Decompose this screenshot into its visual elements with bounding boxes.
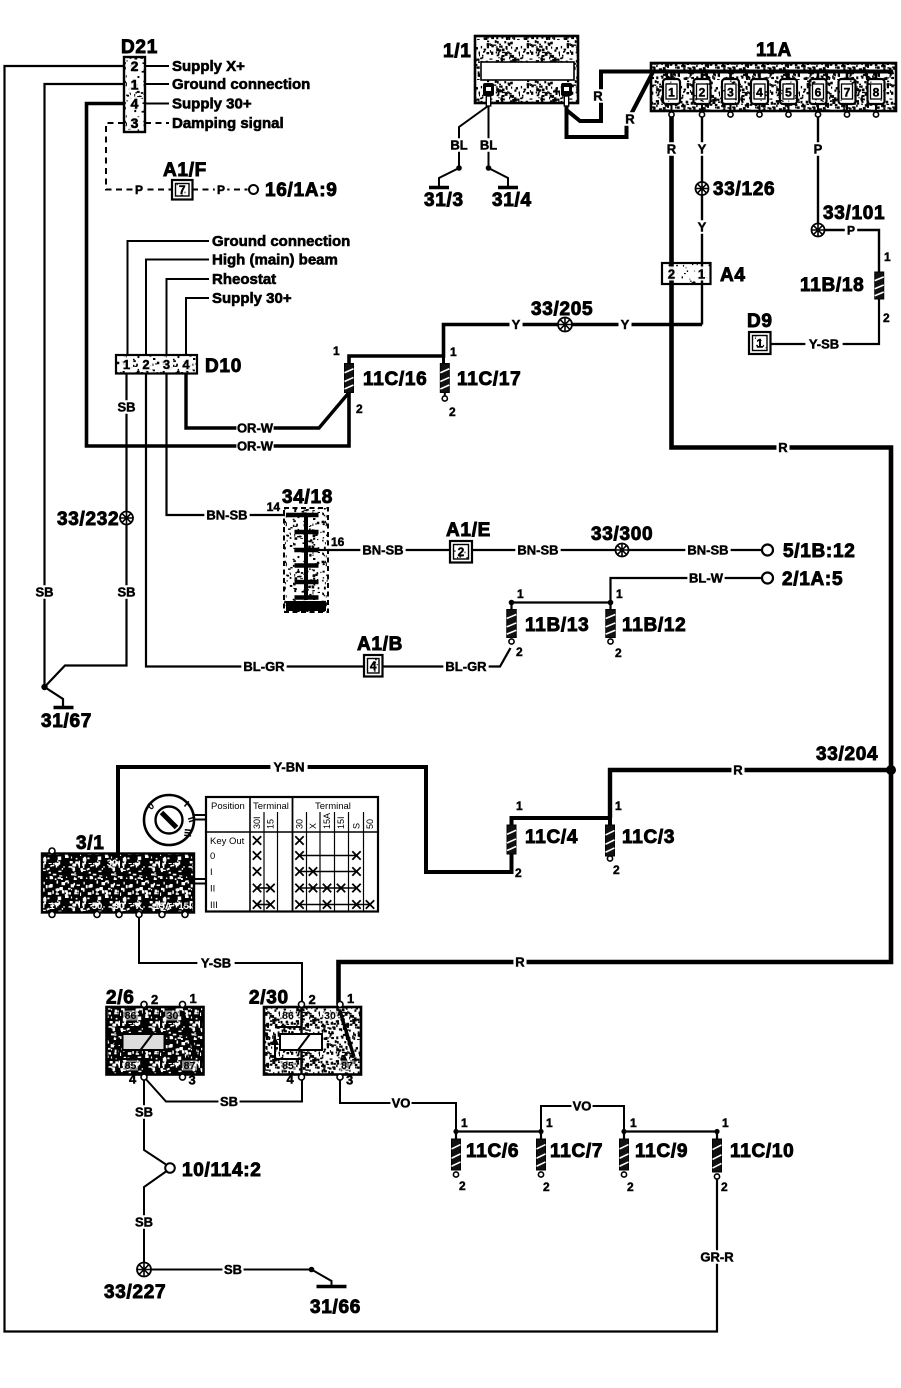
- fuse 2: [701, 72, 704, 81]
- splice 33/300: [616, 544, 629, 557]
- svg-text:BN-SB: BN-SB: [517, 543, 558, 558]
- svg-text:2: 2: [151, 992, 158, 1007]
- wire: VO jog 11C/7 to 11C/9: [541, 1106, 624, 1132]
- wire: fuse2 Y down through 33/126 to A4 pin1: [701, 104, 703, 263]
- wire: 11C row pin1 bus: [456, 1132, 541, 1140]
- wire: D21 pin3 damping signal dashed to A1/F and 16/1A:9: [106, 123, 172, 190]
- svg-text:2: 2: [699, 86, 706, 100]
- svg-text:15I: 15I: [336, 816, 346, 829]
- bulb 11C/17: [444, 393, 446, 396]
- fuse bus bar: [654, 70, 893, 74]
- svg-text:X: X: [136, 901, 143, 912]
- svg-text:2: 2: [515, 866, 522, 880]
- svg-text:I: I: [210, 867, 213, 878]
- svg-text:11C/6: 11C/6: [466, 1141, 519, 1162]
- svg-text:86: 86: [282, 1010, 294, 1022]
- splice 33/204: [886, 765, 896, 775]
- splice 33/227: [137, 1263, 151, 1277]
- svg-text:Supply 30+: Supply 30+: [212, 290, 292, 307]
- fuse 4: [758, 72, 761, 81]
- svg-text:33/126: 33/126: [713, 179, 775, 200]
- svg-text:1: 1: [123, 357, 130, 372]
- svg-text:2: 2: [627, 1180, 634, 1194]
- svg-text:3: 3: [131, 115, 139, 131]
- svg-text:BN-SB: BN-SB: [687, 543, 728, 558]
- svg-text:2: 2: [142, 357, 149, 372]
- svg-text:P: P: [814, 142, 823, 157]
- svg-text:50: 50: [365, 819, 375, 829]
- svg-text:Y-BN: Y-BN: [273, 760, 304, 775]
- svg-text:30: 30: [107, 858, 118, 869]
- svg-text:R: R: [593, 89, 603, 104]
- svg-text:OR-W: OR-W: [237, 421, 274, 436]
- svg-text:8: 8: [873, 86, 880, 100]
- svg-text:16: 16: [331, 535, 345, 549]
- svg-text:5/1B:12: 5/1B:12: [783, 541, 856, 562]
- svg-text:15A: 15A: [322, 813, 332, 829]
- svg-text:1: 1: [333, 344, 340, 358]
- svg-text:2: 2: [458, 545, 465, 559]
- svg-text:D9: D9: [747, 311, 773, 332]
- svg-text:2: 2: [721, 1180, 728, 1194]
- svg-text:1: 1: [516, 799, 523, 813]
- svg-text:1: 1: [722, 1116, 729, 1130]
- svg-text:1: 1: [450, 345, 457, 359]
- svg-text:Terminal: Terminal: [315, 801, 351, 812]
- splice 33/205: [558, 318, 572, 332]
- svg-text:2: 2: [883, 311, 890, 325]
- wire: D10 pin2 down BL-GR: [146, 373, 364, 667]
- svg-text:4: 4: [182, 357, 190, 372]
- svg-text:1: 1: [131, 77, 139, 93]
- wire: battery + to fuse bus R (upper): [567, 72, 657, 122]
- bulb 11B/18: [875, 272, 884, 299]
- svg-text:Terminal: Terminal: [253, 801, 289, 812]
- svg-text:34/18: 34/18: [282, 487, 333, 508]
- connector D9 pin1: [749, 332, 771, 354]
- svg-text:BL-W: BL-W: [689, 571, 724, 586]
- OR-W labels: [236, 421, 273, 435]
- svg-text:OR-W: OR-W: [237, 439, 274, 454]
- fuse 6: [817, 72, 820, 81]
- svg-text:7: 7: [844, 86, 851, 100]
- svg-text:1: 1: [49, 901, 55, 912]
- svg-text:R: R: [667, 142, 677, 157]
- svg-text:SB: SB: [135, 1215, 153, 1230]
- ground 31/66: [317, 1285, 347, 1288]
- svg-text:15I: 15I: [178, 901, 191, 912]
- wire: 11C/4 pin1 to 11C/3 pin1 to R 33/204: [512, 818, 611, 825]
- wire color labels top: [591, 89, 604, 103]
- svg-text:3: 3: [346, 1073, 353, 1088]
- wire: D21 label stubs: [145, 66, 169, 104]
- svg-text:BN-SB: BN-SB: [206, 508, 247, 523]
- svg-text:30: 30: [114, 901, 125, 912]
- svg-text:11C/3: 11C/3: [622, 827, 675, 848]
- wire: battery + to fuse box R (lower loop): [567, 73, 653, 137]
- svg-text:D10: D10: [205, 356, 242, 377]
- svg-text:1: 1: [668, 86, 675, 100]
- svg-text:3/1: 3/1: [76, 833, 105, 854]
- svg-text:Y: Y: [512, 317, 521, 332]
- svg-text:3: 3: [189, 1073, 196, 1088]
- wire: 11B/18 pin2 down Y-SB to D9: [770, 299, 879, 344]
- battery terminals: [483, 83, 494, 96]
- svg-text:11C/16: 11C/16: [363, 369, 427, 390]
- svg-text:31/67: 31/67: [41, 711, 92, 732]
- svg-text:Y: Y: [698, 220, 707, 235]
- Y-BN label: [270, 760, 307, 774]
- wire: 33/101 to 11B/18 pin1: [824, 230, 879, 272]
- svg-text:2: 2: [516, 645, 523, 659]
- svg-text:11C/17: 11C/17: [457, 369, 521, 390]
- wire: border loop D21 pin2 Supply X+ / GR-R to 11C/10: [5, 66, 718, 1332]
- svg-text:R: R: [515, 955, 525, 970]
- svg-text:2: 2: [459, 1179, 466, 1193]
- connector A1/E pin2: [450, 541, 472, 563]
- svg-text:30: 30: [324, 1010, 336, 1022]
- connector 16/1A:9: [249, 185, 258, 194]
- wire: Y horizontal through 33/205 to 11C/16 11C/17: [349, 325, 702, 365]
- svg-text:0: 0: [210, 851, 215, 862]
- ground 31/4: [498, 186, 518, 189]
- svg-text:33/205: 33/205: [531, 299, 593, 320]
- svg-text:31/66: 31/66: [310, 1297, 361, 1318]
- svg-text:11C/9: 11C/9: [635, 1141, 688, 1162]
- svg-text:3: 3: [727, 86, 734, 100]
- svg-text:2: 2: [309, 992, 316, 1007]
- connector A1/B pin4: [364, 655, 383, 677]
- svg-text:11B/18: 11B/18: [800, 275, 864, 296]
- svg-text:BL: BL: [480, 138, 497, 153]
- svg-text:SB: SB: [117, 585, 135, 600]
- wire re-stroke through A4: [669, 263, 674, 284]
- svg-text:III: III: [210, 900, 218, 911]
- svg-text:A1/F: A1/F: [163, 160, 207, 181]
- connector 10/114:2: [165, 1163, 175, 1173]
- svg-text:11A: 11A: [756, 40, 792, 61]
- svg-text:1: 1: [616, 587, 623, 601]
- svg-text:2: 2: [543, 1180, 550, 1194]
- splice 33/126: [696, 182, 709, 195]
- wire: 11B/13 pin1 to 11B/12 pin1: [512, 603, 611, 610]
- connector 2/1A:5: [762, 573, 773, 584]
- wire: D21 pin1 ground connection SB: [45, 84, 125, 686]
- svg-text:85: 85: [282, 1060, 294, 1072]
- svg-text:4: 4: [756, 86, 763, 100]
- svg-text:BL: BL: [450, 138, 467, 153]
- svg-text:VO: VO: [392, 1096, 411, 1111]
- ground 31/3: [429, 186, 449, 189]
- svg-text:R: R: [778, 440, 788, 455]
- ignition key symbol: [144, 795, 194, 845]
- svg-text:BL-GR: BL-GR: [445, 659, 487, 674]
- svg-text:Key Out: Key Out: [210, 836, 245, 847]
- svg-text:31/3: 31/3: [424, 190, 464, 211]
- svg-text:P: P: [135, 183, 143, 197]
- svg-text:50: 50: [92, 901, 103, 912]
- svg-text:3: 3: [163, 357, 170, 372]
- svg-text:1: 1: [546, 1116, 553, 1130]
- svg-text:33/227: 33/227: [104, 1282, 166, 1303]
- wire: VO from 2/30 pin3 to 11C/6: [340, 1077, 456, 1132]
- svg-text:1: 1: [615, 799, 622, 813]
- svg-text:1: 1: [756, 336, 763, 350]
- splice 33/101: [812, 224, 825, 237]
- svg-text:Supply X+: Supply X+: [172, 58, 245, 75]
- wire: SB link 2/6 pin4 to 2/30 pin4: [144, 1077, 302, 1102]
- svg-text:4: 4: [370, 659, 377, 673]
- svg-text:SB: SB: [220, 1094, 238, 1109]
- connector A4: [662, 263, 711, 284]
- svg-text:30: 30: [167, 1010, 179, 1022]
- svg-text:1: 1: [190, 991, 197, 1006]
- svg-text:2/1A:5: 2/1A:5: [782, 569, 843, 590]
- svg-text:30: 30: [295, 819, 305, 829]
- fuse 1: [670, 72, 673, 81]
- connector D21: [124, 57, 145, 132]
- ignition switch 3/1: [42, 854, 194, 913]
- svg-text:2: 2: [613, 863, 620, 877]
- svg-text:Ground connection: Ground connection: [212, 233, 350, 250]
- svg-text:P: P: [217, 183, 225, 197]
- svg-text:11B/13: 11B/13: [525, 615, 589, 636]
- relay 2/30: [264, 1007, 361, 1075]
- svg-text:Y: Y: [698, 142, 707, 157]
- wire: D21 pin4 Supply 30+ thick OR-W: [87, 104, 350, 447]
- wire: BN-SB from 34/18 pin16 to A1/E to 5/1B:12: [318, 549, 450, 551]
- svg-text:33/232: 33/232: [57, 509, 119, 530]
- svg-text:33/204: 33/204: [816, 744, 878, 765]
- svg-text:SB: SB: [117, 400, 135, 415]
- svg-text:SB: SB: [135, 1105, 153, 1120]
- svg-text:1: 1: [630, 1116, 637, 1130]
- svg-text:A1/B: A1/B: [357, 634, 403, 655]
- svg-text:Ground connection: Ground connection: [172, 76, 310, 93]
- wire: SB 2/6 pin4 down: [144, 1077, 166, 1165]
- svg-text:2: 2: [615, 646, 622, 660]
- svg-text:BN-SB: BN-SB: [362, 543, 403, 558]
- wire BL to 31/4: [489, 106, 509, 187]
- wire: D10 pin4 down OR-W to 11C/16 pin2: [186, 373, 349, 428]
- svg-text:1: 1: [347, 991, 354, 1006]
- svg-text:86: 86: [125, 1010, 137, 1022]
- svg-text:SB: SB: [35, 585, 53, 600]
- svg-text:D21: D21: [121, 37, 158, 58]
- svg-text:Y-SB: Y-SB: [809, 337, 839, 352]
- svg-text:II: II: [210, 884, 215, 895]
- wire: leader lines to D10 labels: [128, 241, 210, 355]
- svg-text:SB: SB: [224, 1262, 242, 1277]
- svg-text:A1/E: A1/E: [446, 520, 491, 541]
- svg-text:87: 87: [341, 1060, 353, 1072]
- fuse box 11A: [651, 63, 896, 111]
- svg-text:2/6: 2/6: [106, 988, 135, 1009]
- svg-text:III: III: [181, 828, 193, 837]
- svg-text:S: S: [352, 823, 362, 829]
- svg-text:Position: Position: [211, 801, 245, 812]
- resistor module 34/18: [284, 508, 328, 612]
- svg-text:1: 1: [517, 587, 524, 601]
- svg-text:2: 2: [668, 267, 675, 282]
- svg-text:Supply 30+: Supply 30+: [172, 96, 252, 113]
- svg-text:5: 5: [785, 86, 792, 100]
- svg-text:X: X: [308, 823, 318, 829]
- R label on thick horizontals: [776, 441, 789, 455]
- wire: D10 pin3 down BN-SB to 34/18 pin14: [167, 373, 287, 515]
- svg-text:Y-SB: Y-SB: [201, 956, 231, 971]
- fuse 7: [846, 72, 849, 81]
- svg-text:11C/7: 11C/7: [550, 1141, 603, 1162]
- wire: BL-W from 11B/12 pin1 to 2/1A:5: [611, 578, 763, 603]
- svg-text:2: 2: [356, 402, 363, 416]
- svg-text:1/1: 1/1: [443, 41, 472, 62]
- battery 1/1: [475, 36, 578, 103]
- svg-text:1: 1: [698, 267, 705, 282]
- wire re-stroke battery feed over fuse box: [627, 70, 655, 123]
- svg-text:11B/12: 11B/12: [622, 615, 686, 636]
- svg-text:30I: 30I: [252, 816, 262, 829]
- svg-text:GR-R: GR-R: [700, 1250, 734, 1265]
- svg-text:10/114:2: 10/114:2: [182, 1160, 262, 1181]
- svg-text:P: P: [847, 223, 855, 237]
- ignition position table: [206, 797, 378, 912]
- svg-text:2/30: 2/30: [249, 988, 289, 1009]
- svg-text:33/300: 33/300: [591, 524, 653, 545]
- ground 31/67: [41, 684, 47, 690]
- svg-text:A4: A4: [720, 265, 746, 286]
- svg-text:4: 4: [131, 96, 139, 112]
- svg-text:4: 4: [287, 1072, 295, 1087]
- wire: Y-SB from 3/1 to 2/30 pin2: [139, 914, 302, 1004]
- svg-text:2: 2: [449, 405, 456, 419]
- svg-text:BL-GR: BL-GR: [243, 659, 285, 674]
- splice 33/232: [120, 512, 133, 525]
- svg-text:R: R: [733, 763, 743, 778]
- relay 2/6: [107, 1007, 204, 1075]
- connector A1/F pin7: [172, 180, 193, 200]
- svg-text:7: 7: [179, 183, 186, 197]
- svg-text:2: 2: [131, 58, 139, 74]
- svg-text:31/4: 31/4: [492, 190, 532, 211]
- wire: A4 pin1 down to Y node: [701, 284, 703, 325]
- svg-text:Damping signal: Damping signal: [172, 115, 284, 132]
- svg-text:16/1A:9: 16/1A:9: [265, 180, 338, 201]
- fuse 5: [787, 72, 790, 81]
- svg-text:11C/4: 11C/4: [525, 827, 578, 848]
- svg-text:R: R: [625, 112, 635, 127]
- svg-text:Rheostat: Rheostat: [212, 271, 276, 288]
- wire: Y-BN from 3/1 to 11C/4 pin2: [118, 767, 512, 872]
- svg-text:11C/10: 11C/10: [730, 1141, 794, 1162]
- svg-text:4: 4: [129, 1072, 137, 1087]
- wire: D10 pin1 SB down through 33/232 to ground 31/67: [45, 373, 127, 687]
- svg-text:VO: VO: [573, 1099, 592, 1114]
- wire BL to 31/3: [439, 106, 488, 187]
- svg-text:87: 87: [184, 1060, 196, 1072]
- wire: fuse6 P down to 33/101: [817, 104, 819, 230]
- svg-text:1: 1: [884, 250, 891, 264]
- connector 5/1B:12: [762, 545, 773, 556]
- svg-text:Y: Y: [621, 317, 630, 332]
- svg-text:15A: 15A: [154, 901, 172, 912]
- key to table stub: [195, 815, 207, 820]
- svg-text:6: 6: [815, 86, 822, 100]
- svg-text:85: 85: [125, 1060, 137, 1072]
- connector D10: [116, 355, 197, 374]
- svg-text:15: 15: [266, 819, 276, 829]
- Y-SB label: [197, 956, 234, 970]
- svg-text:14: 14: [267, 500, 281, 514]
- fuse 3: [729, 72, 732, 81]
- fuse 8: [875, 72, 878, 81]
- wire: fuse1 R down to A4 pin2 and corner: [339, 104, 892, 1004]
- svg-text:High (main) beam: High (main) beam: [212, 252, 338, 269]
- svg-text:33/101: 33/101: [823, 203, 885, 224]
- wire: 33/227 SB to 31/66: [150, 1269, 312, 1271]
- svg-text:1: 1: [461, 1116, 468, 1130]
